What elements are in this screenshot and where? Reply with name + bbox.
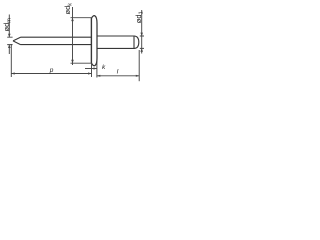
rivet head dome — [92, 16, 98, 66]
dim l arrows — [97, 75, 100, 77]
dim od1 arrows — [140, 33, 143, 36]
mandrel rod — [21, 37, 92, 44]
head face ext down — [91, 64, 93, 77]
dome ext down — [96, 61, 98, 78]
dim odm arrows — [8, 34, 11, 37]
dim k arrows — [94, 67, 97, 69]
dim p ext left — [10, 44, 12, 77]
mandrel head inner line — [133, 36, 135, 48]
dim odm ext lines — [7, 37, 12, 44]
dim odk arrows — [71, 18, 74, 21]
svg-text:p: p — [49, 67, 54, 74]
dim l ext right — [138, 50, 140, 81]
mandrel tip — [13, 37, 21, 44]
dim l line — [97, 75, 139, 77]
rivet head face — [90, 18, 92, 64]
dim p arrows — [11, 72, 14, 74]
dim od1 ext lines — [140, 36, 144, 48]
dim k line — [85, 68, 97, 70]
dim p line — [11, 73, 91, 75]
dim odk ext lines — [71, 18, 93, 64]
rivet body — [97, 36, 139, 48]
dim odk line — [72, 7, 74, 65]
dim od1 line — [141, 10, 143, 54]
dim odm line — [8, 15, 10, 55]
